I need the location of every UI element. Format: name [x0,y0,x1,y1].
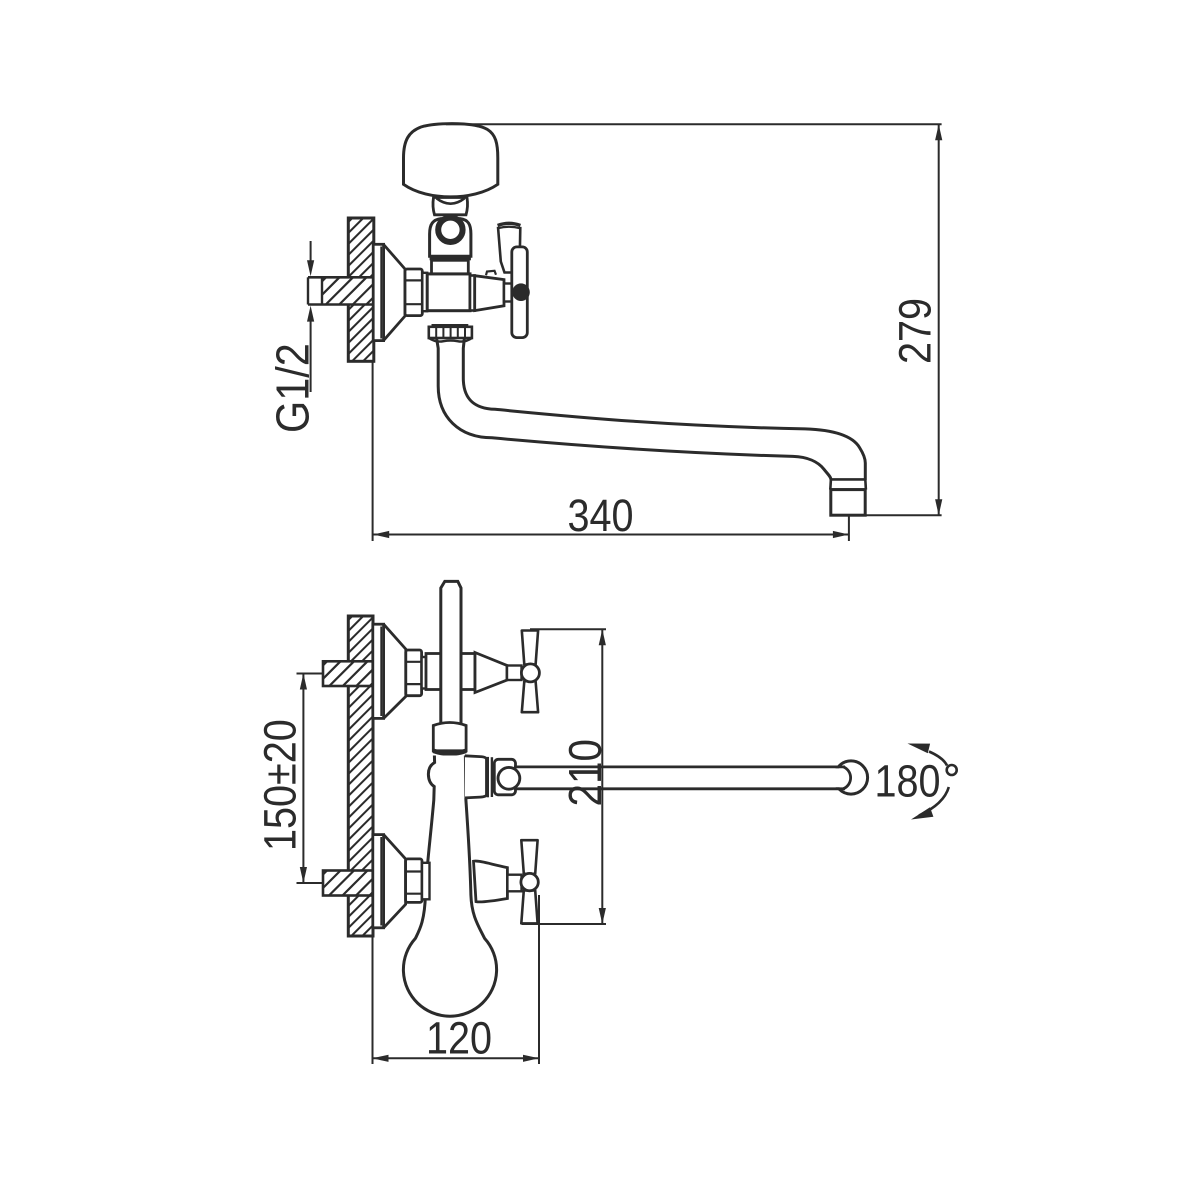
shower riser pipe (front view) [441,581,461,723]
extension line wall left (120) [372,937,374,1064]
extension line upper handle top [530,628,606,630]
body collar band (side view) [430,256,471,260]
dimension 210 line [599,629,606,924]
swan spout tube (side view) [437,340,866,480]
wall section (front view) [348,616,373,936]
body rim (side view) [470,276,475,311]
svg-text:G1/2: G1/2 [268,343,320,433]
dimension 340 line [373,531,849,538]
upper washer (front view) [422,657,426,689]
spout end cap (front view) [834,761,867,794]
spout nozzle (side view) [831,490,865,516]
faucet body (side view) [427,274,470,311]
diverter shoulder (front view) [465,756,487,798]
dimension 150+-20 label [255,719,305,851]
upper valve body (side view) [430,219,471,257]
svg-text:120: 120 [426,1013,492,1063]
shower handset dome (side view) [404,124,498,197]
dimension 120 label [426,1013,492,1063]
hand shower handle (front view) [403,756,496,1017]
extension line from dome top [446,123,942,125]
valve bonnet (side view) [475,271,504,311]
diverter ribs (front view) [488,757,492,797]
extension line lower stub [297,882,323,884]
extension line nozzle down [848,516,850,542]
rotation arc upper arrow [908,744,948,766]
lower cross handle (front view) [521,840,537,923]
upper valve stem (front view) [507,666,522,681]
spout pipe (front view) [514,767,851,789]
diverter lever (side view) [498,223,521,272]
G1/2 leader arrows [307,241,314,392]
extension line from nozzle bottom [866,514,942,516]
dimension 340 label [567,491,633,541]
dimension 279 label [890,298,940,364]
lower handle hub (front view) [521,873,538,890]
diverter knob (front view) [498,767,520,789]
svg-text:340: 340 [567,491,633,541]
upper valve body (front view) [426,654,475,690]
extension line lower handle bottom [522,923,606,925]
eccentric cone (side view) [384,245,405,341]
ball joint (side view) [438,218,462,242]
washer ring (side view) [422,273,427,311]
knurled spout nut (side view) [429,327,472,342]
supply pipe G1/2 through wall (side view) [308,277,374,304]
upper valve bonnet (front view) [475,653,507,693]
extension line upper stub [297,673,323,675]
svg-text:279: 279 [890,298,940,364]
lower escutcheon flange (front view) [373,835,384,928]
handle hub (side view) [512,283,530,301]
upper supply stub (front view) [323,661,373,686]
dimension 150+-20 line [300,674,307,884]
lower valve bonnet (front view) [474,861,508,902]
diverter bonnet (front view) [494,759,515,795]
G1/2 label [268,343,320,433]
upper escutcheon flange (front view) [373,624,384,718]
wall-union hex nut (side view) [405,269,422,316]
dimension 279 line [935,124,942,515]
extension line wall face down [372,362,374,542]
degree symbol [947,765,957,775]
lower eccentric cone (front view) [384,835,406,928]
lower washer (front view) [422,863,430,900]
upper hex nut (front view) [406,650,422,696]
svg-text:210: 210 [560,739,611,807]
upper handle hub (front view) [521,664,539,682]
lower valve stem (front view) [507,875,521,892]
upper eccentric cone (front view) [384,624,406,718]
riser sleeve (front view) [433,723,466,754]
escutcheon flange (side view) [373,244,383,340]
upper cross handle (front view) [522,631,538,713]
valve stem (side view) [504,284,512,302]
lower supply stub (front view) [323,871,373,896]
dimension 210 label [560,739,611,807]
handle neck (side view) [433,198,468,215]
lower hex nut (front view) [406,859,422,903]
svg-text:180: 180 [875,756,941,806]
rotation arc lower arrow [911,787,949,820]
wall section (side view) [348,218,374,361]
spout nut band (side view) [432,324,469,327]
lower cartridge body (side view) [432,260,469,274]
spout outlet band (side view) [830,479,866,489]
label 180 degrees [875,756,941,806]
extension line handle right (120) [538,895,540,1064]
svg-text:150±20: 150±20 [255,719,305,851]
dimension 120 line [373,1055,540,1062]
cross handle bar (side view) [512,247,528,338]
